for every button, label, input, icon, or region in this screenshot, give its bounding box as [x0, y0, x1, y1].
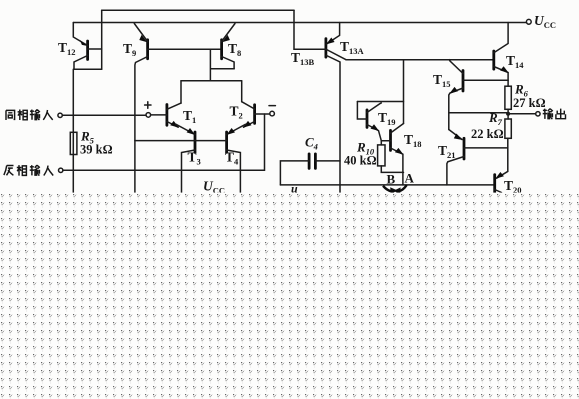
wire: T13A collector line to T14 base: [346, 59, 494, 61]
svg-text:39 kΩ: 39 kΩ: [80, 143, 113, 157]
wire: T1 collector vertical: [180, 81, 182, 103]
svg-text:A: A: [405, 171, 415, 186]
wire: R6 bottom to dot to R7: [507, 109, 509, 119]
svg-text:22 kΩ: 22 kΩ: [471, 127, 504, 141]
transistor T2: [242, 102, 270, 128]
wire: output link: [449, 112, 536, 115]
plus sign: [145, 102, 151, 108]
wire: main UCC rail: [73, 22, 526, 24]
wire: inverting input rail: [63, 114, 265, 170]
resistor R7: [505, 119, 511, 138]
transistor T15: [449, 60, 508, 130]
wire: T3 T4 base rail from T9 collector: [135, 140, 227, 142]
arrow to node A: [399, 185, 407, 191]
wire: upper base rail (T12 base to T13 base): [102, 9, 294, 11]
transistor T14: [494, 23, 509, 87]
wire: T2 collector vertical: [241, 81, 243, 102]
transistor T9: [134, 24, 221, 193]
terminal noninverting input circle: [58, 113, 62, 117]
transistor T1: [167, 103, 181, 128]
svg-text:B: B: [387, 172, 396, 187]
wire: T13 base drop vertical: [293, 10, 295, 49]
terminal output circle: [536, 112, 540, 116]
transistor T3: [176, 124, 195, 192]
arrow to node B: [383, 186, 392, 192]
transistor T21: [447, 130, 508, 185]
capacitor C4: [280, 154, 340, 185]
transistor T19: [357, 102, 403, 141]
transistor T18: [381, 124, 403, 185]
minus sign: [269, 105, 275, 107]
svg-text:40 kΩ: 40 kΩ: [344, 154, 377, 168]
wire: T8 collector-base tie loop: [210, 49, 234, 80]
transistor T12: [73, 23, 101, 193]
wire: input-stage collector bus: [181, 80, 242, 82]
wire: R7 bottom to T20 emitter: [497, 138, 508, 178]
terminal inverting node circle: [270, 111, 275, 116]
transistor T13A T13B dual collector: [294, 23, 346, 193]
terminal UCC circle: [526, 19, 531, 24]
transistor T4: [226, 124, 245, 192]
junction dot R6 R7 output: [506, 112, 510, 116]
label noninverting input 同相输入: [6, 110, 53, 121]
resistor R10: [378, 141, 404, 173]
wire: bias node horizontal A B: [280, 184, 493, 186]
wire: long vertical T13A to T19 collector: [403, 60, 405, 124]
transistor T20: [495, 172, 504, 193]
terminal inverting input circle: [59, 168, 63, 172]
halftone paper texture area: [0, 193, 579, 399]
svg-text:27 kΩ: 27 kΩ: [513, 96, 546, 110]
transistor T8: [222, 24, 235, 69]
wire: noninverting input: [62, 114, 166, 116]
resistor R6: [505, 86, 511, 109]
label output 输出: [543, 109, 566, 119]
wire: T12 base/collector tie vertical: [101, 10, 103, 69]
resistor R5: [70, 132, 77, 154]
terminal noninverting node circle: [146, 113, 151, 118]
label inverting input 反相输入: [4, 165, 53, 176]
